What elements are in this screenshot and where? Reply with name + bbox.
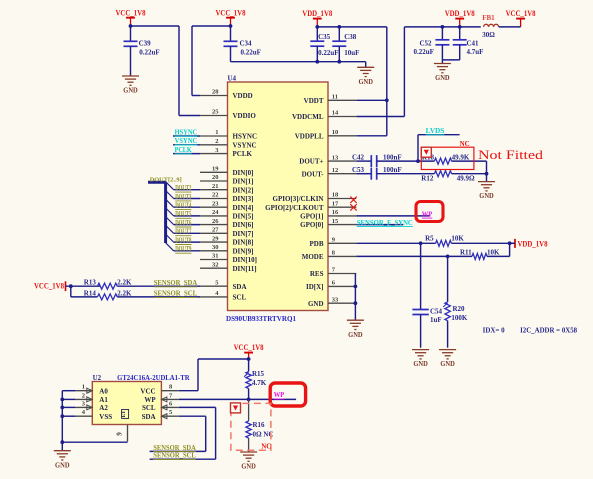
svg-text:VDDD: VDDD bbox=[233, 92, 253, 100]
svg-text:29: 29 bbox=[212, 235, 219, 242]
svg-text:VCC_1V8: VCC_1V8 bbox=[34, 281, 64, 290]
svg-text:VCC: VCC bbox=[140, 388, 155, 396]
svg-text:DIN[9]: DIN[9] bbox=[233, 247, 254, 255]
svg-text:33: 33 bbox=[332, 296, 339, 303]
svg-text:E1: E1 bbox=[121, 411, 127, 418]
svg-text:DOUT7: DOUT7 bbox=[175, 229, 192, 236]
svg-text:21: 21 bbox=[212, 183, 219, 190]
svg-text:SENSOR_SCL: SENSOR_SCL bbox=[153, 452, 196, 460]
svg-text:WP: WP bbox=[422, 210, 433, 218]
svg-text:2: 2 bbox=[82, 392, 85, 399]
svg-text:DIN[5]: DIN[5] bbox=[233, 213, 254, 221]
svg-text:SENSOR_SDA: SENSOR_SDA bbox=[154, 279, 198, 287]
svg-text:10uF: 10uF bbox=[344, 49, 359, 57]
svg-text:GND: GND bbox=[348, 331, 363, 339]
svg-text:SCL: SCL bbox=[142, 404, 156, 412]
svg-text:30: 30 bbox=[212, 244, 219, 251]
svg-text:DOUT+: DOUT+ bbox=[299, 158, 323, 166]
svg-text:R12: R12 bbox=[421, 175, 434, 183]
svg-text:C54: C54 bbox=[430, 308, 443, 316]
svg-text:14: 14 bbox=[332, 110, 339, 117]
svg-text:4.7K: 4.7K bbox=[252, 379, 267, 387]
svg-text:VCC_1V8: VCC_1V8 bbox=[506, 9, 536, 18]
svg-text:DIN[7]: DIN[7] bbox=[233, 230, 254, 238]
svg-text:WP: WP bbox=[144, 396, 156, 404]
svg-text:MODE: MODE bbox=[302, 253, 324, 261]
svg-text:0.22uF: 0.22uF bbox=[414, 48, 434, 56]
svg-text:Not Fitted: Not Fitted bbox=[478, 147, 544, 162]
svg-text:13: 13 bbox=[332, 154, 339, 161]
svg-text:C35: C35 bbox=[318, 33, 331, 41]
svg-text:DOUT2: DOUT2 bbox=[175, 185, 192, 192]
svg-text:A1: A1 bbox=[99, 396, 108, 404]
svg-text:R14: R14 bbox=[84, 289, 97, 297]
svg-text:22: 22 bbox=[212, 192, 219, 199]
svg-text:2: 2 bbox=[215, 138, 218, 145]
svg-text:U4: U4 bbox=[228, 74, 237, 82]
svg-text:DIN[1]: DIN[1] bbox=[233, 178, 254, 186]
svg-text:NC: NC bbox=[261, 443, 271, 451]
svg-text:24: 24 bbox=[212, 209, 219, 216]
svg-text:0.22uF: 0.22uF bbox=[318, 49, 338, 57]
svg-text:VCC_1V8: VCC_1V8 bbox=[216, 8, 246, 17]
svg-text:GPIO[3]/CLKIN: GPIO[3]/CLKIN bbox=[273, 195, 324, 203]
svg-text:DIN[8]: DIN[8] bbox=[233, 239, 254, 247]
svg-text:DOUT9: DOUT9 bbox=[175, 246, 192, 253]
svg-text:18: 18 bbox=[332, 192, 339, 199]
svg-text:FB1: FB1 bbox=[482, 14, 495, 22]
svg-text:10: 10 bbox=[332, 129, 339, 136]
svg-text:NC: NC bbox=[460, 140, 470, 148]
svg-text:GND: GND bbox=[440, 360, 455, 368]
svg-text:GND: GND bbox=[413, 360, 428, 368]
svg-text:28: 28 bbox=[212, 89, 219, 96]
svg-text:GND: GND bbox=[435, 74, 450, 82]
svg-text:R13: R13 bbox=[84, 279, 97, 287]
svg-text:C42: C42 bbox=[352, 153, 365, 161]
svg-text:GT24C16A-2UDLA1-TR: GT24C16A-2UDLA1-TR bbox=[117, 374, 190, 382]
svg-text:DIN[6]: DIN[6] bbox=[233, 221, 254, 229]
svg-text:R11: R11 bbox=[460, 248, 472, 256]
svg-text:VSYNC: VSYNC bbox=[233, 141, 257, 149]
svg-text:R15: R15 bbox=[252, 370, 265, 378]
svg-text:VDD_1V8: VDD_1V8 bbox=[445, 9, 475, 18]
svg-text:17: 17 bbox=[332, 200, 339, 207]
svg-text:1uF: 1uF bbox=[430, 316, 442, 324]
svg-text:HSYNC: HSYNC bbox=[175, 128, 198, 136]
svg-text:2.2K: 2.2K bbox=[117, 289, 132, 297]
svg-text:IDX= 0: IDX= 0 bbox=[483, 327, 506, 335]
svg-text:GND: GND bbox=[308, 300, 324, 308]
svg-text:26: 26 bbox=[212, 218, 219, 225]
svg-text:WP: WP bbox=[274, 391, 285, 399]
svg-text:GND: GND bbox=[55, 461, 70, 469]
svg-text:19: 19 bbox=[212, 166, 219, 173]
svg-text:C39: C39 bbox=[139, 39, 152, 47]
svg-text:0.22uF: 0.22uF bbox=[139, 49, 159, 57]
svg-text:VCC_1V8: VCC_1V8 bbox=[234, 343, 264, 352]
svg-text:100nF: 100nF bbox=[383, 153, 402, 161]
svg-text:C41: C41 bbox=[467, 40, 480, 48]
svg-text:4.7uF: 4.7uF bbox=[467, 48, 484, 56]
svg-text:VCC_1V8: VCC_1V8 bbox=[116, 8, 146, 17]
svg-text:GND: GND bbox=[123, 87, 138, 95]
svg-text:2.2K: 2.2K bbox=[117, 279, 132, 287]
svg-text:DOUT-: DOUT- bbox=[302, 170, 325, 178]
svg-text:VDD_1V8: VDD_1V8 bbox=[302, 9, 332, 18]
svg-text:DOUT3: DOUT3 bbox=[175, 194, 192, 201]
svg-text:C38: C38 bbox=[344, 33, 357, 41]
svg-text:12: 12 bbox=[332, 167, 339, 174]
svg-text:49.9K: 49.9K bbox=[452, 153, 470, 161]
svg-text:SDA: SDA bbox=[233, 283, 247, 291]
svg-text:10K: 10K bbox=[487, 248, 500, 256]
svg-text:9: 9 bbox=[116, 432, 124, 436]
svg-text:GND: GND bbox=[479, 192, 494, 200]
svg-text:DOUT5: DOUT5 bbox=[175, 211, 192, 218]
svg-text:VDDCML: VDDCML bbox=[292, 113, 324, 121]
svg-text:SENSOR_SDA: SENSOR_SDA bbox=[153, 444, 196, 452]
svg-text:VSYNC: VSYNC bbox=[175, 137, 198, 145]
svg-text:31: 31 bbox=[212, 253, 219, 260]
svg-text:GPO[1]: GPO[1] bbox=[300, 213, 323, 221]
svg-text:GPIO[2]/CLKOUT: GPIO[2]/CLKOUT bbox=[265, 204, 324, 212]
svg-text:DIN[11]: DIN[11] bbox=[233, 265, 257, 273]
svg-text:RES: RES bbox=[310, 270, 324, 278]
svg-text:1: 1 bbox=[215, 129, 218, 136]
svg-text:VDDT: VDDT bbox=[304, 97, 324, 105]
svg-text:PDB: PDB bbox=[310, 240, 324, 248]
svg-text:DOUT6: DOUT6 bbox=[175, 220, 192, 227]
svg-text:100nF: 100nF bbox=[383, 166, 402, 174]
svg-text:R20: R20 bbox=[453, 305, 466, 313]
svg-text:C52: C52 bbox=[420, 40, 433, 48]
svg-text:DIN[4]: DIN[4] bbox=[233, 204, 254, 212]
svg-text:A2: A2 bbox=[99, 404, 108, 412]
svg-text:VDDIO: VDDIO bbox=[233, 112, 257, 120]
svg-text:15: 15 bbox=[332, 218, 339, 225]
svg-text:23: 23 bbox=[212, 200, 219, 207]
svg-text:30Ω: 30Ω bbox=[482, 31, 495, 39]
svg-text:VDD_1V8: VDD_1V8 bbox=[518, 240, 548, 249]
svg-text:DIN[10]: DIN[10] bbox=[233, 256, 258, 264]
svg-text:I2C_ADDR = 0X58: I2C_ADDR = 0X58 bbox=[520, 327, 577, 335]
svg-text:PCLK: PCLK bbox=[175, 146, 192, 154]
svg-text:ID[X]: ID[X] bbox=[306, 283, 324, 291]
svg-text:DOUT4: DOUT4 bbox=[175, 203, 192, 210]
svg-text:DIN[3]: DIN[3] bbox=[233, 195, 254, 203]
svg-text:C34: C34 bbox=[240, 39, 253, 47]
svg-text:SCL: SCL bbox=[233, 294, 247, 302]
svg-text:C53: C53 bbox=[352, 166, 365, 174]
svg-text:VSS: VSS bbox=[99, 413, 112, 421]
svg-text:GND: GND bbox=[358, 78, 373, 86]
svg-text:SENSOR_F_SYNC: SENSOR_F_SYNC bbox=[357, 219, 413, 227]
svg-text:SENSOR_SCL: SENSOR_SCL bbox=[154, 290, 198, 298]
svg-text:16: 16 bbox=[332, 209, 339, 216]
svg-text:25: 25 bbox=[212, 109, 219, 116]
svg-text:0.22uF: 0.22uF bbox=[241, 49, 261, 57]
svg-text:R16: R16 bbox=[253, 421, 266, 429]
svg-text:GND: GND bbox=[241, 463, 256, 471]
svg-text:11: 11 bbox=[332, 94, 338, 101]
svg-text:VDDPLL: VDDPLL bbox=[295, 132, 324, 140]
svg-text:A0: A0 bbox=[99, 388, 108, 396]
svg-text:100K: 100K bbox=[451, 314, 468, 322]
svg-text:HSYNC: HSYNC bbox=[233, 133, 258, 141]
svg-text:DIN[2]: DIN[2] bbox=[233, 186, 254, 194]
svg-text:DOUT8: DOUT8 bbox=[175, 237, 192, 244]
svg-text:10K: 10K bbox=[451, 235, 464, 243]
svg-text:SDA: SDA bbox=[142, 413, 156, 421]
svg-text:27: 27 bbox=[212, 227, 219, 234]
svg-text:1: 1 bbox=[82, 384, 85, 391]
svg-text:DIN[0]: DIN[0] bbox=[233, 169, 254, 177]
svg-text:U2: U2 bbox=[93, 374, 102, 382]
svg-text:PCLK: PCLK bbox=[233, 150, 253, 158]
svg-text:R5: R5 bbox=[425, 235, 434, 243]
svg-text:LVDS: LVDS bbox=[426, 127, 445, 135]
svg-text:DS90UB933TRTVRQ1: DS90UB933TRTVRQ1 bbox=[226, 315, 296, 323]
svg-text:32: 32 bbox=[212, 261, 219, 268]
svg-text:GPO[0]: GPO[0] bbox=[300, 221, 323, 229]
svg-text:49.9Ω: 49.9Ω bbox=[457, 175, 475, 183]
svg-text:20: 20 bbox=[212, 174, 219, 181]
